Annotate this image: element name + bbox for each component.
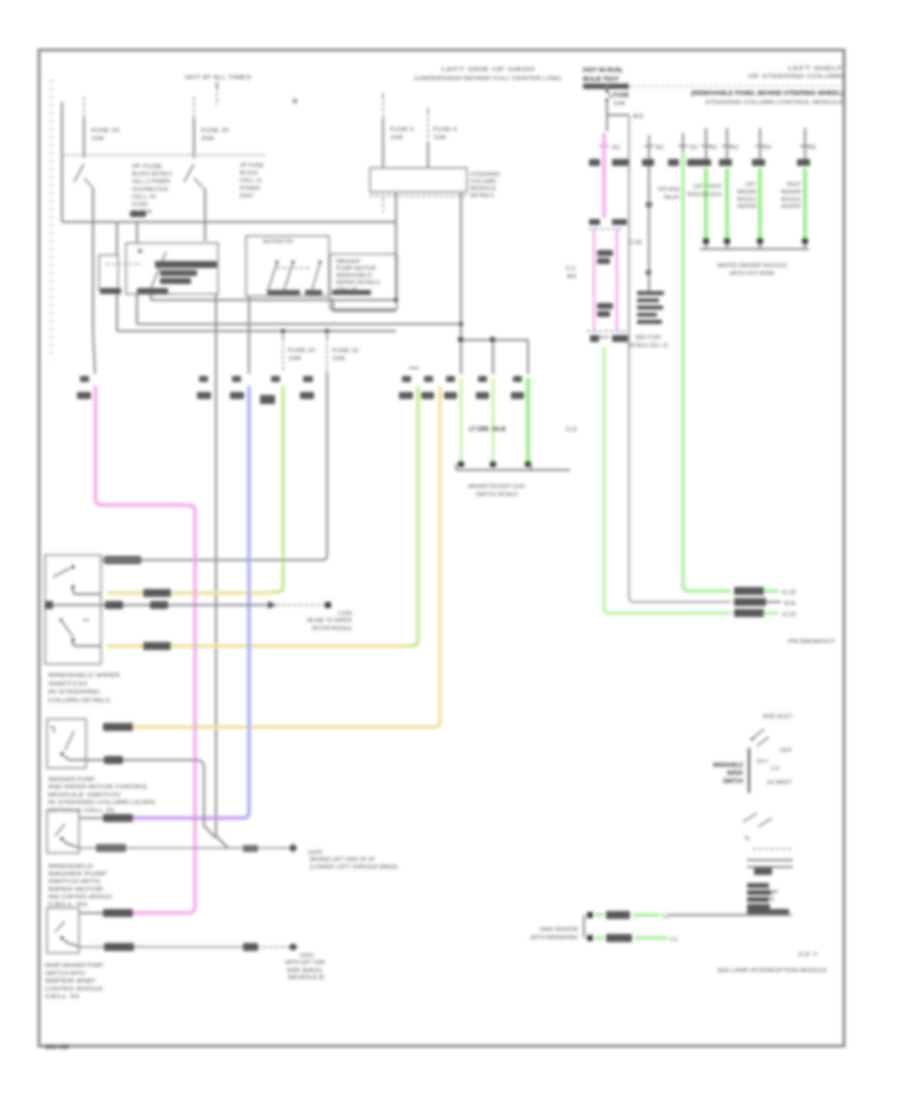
fuse F7 label [613,92,629,107]
relay box B [246,236,329,296]
pin label C2 [628,240,642,246]
svg-text:DLY: DLY [757,759,768,765]
junction [646,202,652,207]
color labels [589,159,629,166]
svg-text:INLINE TO WIPER: INLINE TO WIPER [307,618,352,624]
bus wire L4 [117,330,396,332]
box C text [336,259,380,293]
svg-text:RELAY: RELAY [664,195,680,201]
bracket [456,464,570,470]
wire switch feed [140,372,327,560]
wiper switch arm2 [757,737,769,746]
rain sensor bracket [583,915,585,938]
switch S1 caption [48,673,120,704]
node label LEFT SIDE OF DASH [415,67,562,82]
washer nozzle text 1 [687,184,706,198]
merge diag Va [216,836,228,848]
svg-text:WASHER: WASHER [737,189,757,195]
svg-text:SWITCH WITH: SWITCH WITH [45,971,85,977]
connector arrow [268,601,276,609]
svg-text:HEATER: HEATER [781,204,801,210]
wire fuse F24 output [92,188,94,222]
terminal [490,461,496,467]
svg-text:D4: D4 [763,145,771,151]
switch S1 contact lower [71,638,74,641]
svg-text:WIPER: WIPER [727,770,743,777]
fuse F24 label [91,128,119,142]
wiper mode label [763,714,793,720]
svg-text:BLK: BLK [492,426,507,433]
svg-text:25A: 25A [201,136,214,142]
color labels [668,159,699,166]
svg-text:MTR: MTR [762,897,774,903]
svg-text:BLOCK DETAILS: BLOCK DETAILS [132,172,172,178]
wire GRN long right [604,347,731,613]
fuse F25 element [184,164,203,188]
switch S2 contact [60,752,63,755]
svg-text:PUMP MOTOR: PUMP MOTOR [336,266,376,272]
wire from HOT label [216,82,218,106]
svg-text:C1: C1 [670,937,678,943]
svg-text:DIST: DIST [240,193,255,199]
wire label [143,589,171,597]
svg-text:IN STEERING: IN STEERING [48,690,100,696]
tick [745,836,749,840]
svg-text:SWITCH DETAILS: SWITCH DETAILS [476,492,518,498]
svg-text:MODULE SWITCH: MODULE SWITCH [48,792,120,798]
junction [458,337,463,342]
svg-text:SWITCH: SWITCH [48,681,87,687]
junction [646,270,651,275]
connector text [307,611,352,632]
svg-text:LEFT SIDE OF DASH: LEFT SIDE OF DASH [442,67,535,73]
switch S1 divider wire [45,604,101,606]
wire label [96,844,126,852]
coil dashes [106,263,142,265]
wire GRN pig2 [595,934,678,943]
wire YEL horizontal row1 [107,591,272,594]
svg-text:10A: 10A [613,101,625,107]
svg-text:CELL 11: CELL 11 [240,178,262,184]
left dashed guide line [50,79,52,360]
svg-text:10A: 10A [91,136,104,142]
washer level switch feed [461,340,528,374]
bottom caption [717,968,827,974]
svg-text:D2: D2 [709,145,717,151]
switch S1 arm lower [60,619,74,638]
wire GRN b [491,378,494,461]
svg-text:DETAILS: DETAILS [470,193,494,199]
blob [754,868,772,875]
terminal [525,461,531,467]
svg-text:IN STEERING COLUMN LEVER: IN STEERING COLUMN LEVER [48,800,155,806]
node HOT IN RUN [583,67,629,89]
fuse F5 label [390,127,414,141]
svg-text:LEFT: LEFT [745,182,758,188]
svg-text:(REMOVABLE PANEL BEHIND STEERI: (REMOVABLE PANEL BEHIND STEERING WHEEL) [691,90,843,97]
svg-text:B3: B3 [633,114,643,120]
svg-text:AIR BAG): AIR BAG) [287,968,322,974]
svg-text:WASHER SOLVENT LEVEL: WASHER SOLVENT LEVEL [468,484,526,490]
rain sensor terminal 1 [587,912,593,918]
wire GRN a [459,378,462,461]
pin label [77,376,91,399]
svg-text:SWITCH: SWITCH [723,778,743,785]
ground G201 text [285,953,325,981]
switch box S4 [47,908,79,953]
junction [394,298,398,302]
svg-text:FUSE 23: FUSE 23 [288,348,315,354]
nozzle caption [717,263,787,277]
wire row3 ground [101,604,268,606]
branch wire [607,114,643,120]
fuse F25 label [201,128,229,142]
wire color label [421,392,434,399]
terminal [458,461,464,467]
fuse block top dashed edge [62,154,265,156]
relay box B label [263,239,293,245]
svg-text:CONTROL MODULE: CONTROL MODULE [45,986,103,992]
ground G200 text [308,850,398,871]
page number text [45,1044,69,1051]
wire relay feed [644,135,664,291]
svg-text:15A: 15A [433,135,446,141]
svg-text:LO: LO [771,766,780,772]
svg-text:FUSE 25: FUSE 25 [201,128,229,134]
fuse F23 lead [282,334,284,372]
svg-text:LEFT: LEFT [693,184,706,190]
svg-text:C2 B5: C2 B5 [628,240,642,246]
wire GRN2 stub [701,128,717,166]
wire relay A pin [215,294,217,836]
pin tick [599,145,620,151]
wire YEL/GRN 2 vertical [407,386,418,646]
wire GRN end [764,612,796,618]
wire dashed [276,604,326,606]
svg-text:STEERING COLUMN CONTROL MODULE: STEERING COLUMN CONTROL MODULE [705,100,843,106]
wire coil feed [116,222,118,255]
junction [281,329,285,333]
svg-text:WIPER DETAILS: WIPER DETAILS [336,280,380,286]
terminal [703,238,709,244]
svg-text:MODULE: MODULE [288,975,325,981]
wire GRN1 end [764,590,796,596]
wire BLU vertical [230,296,249,399]
svg-text:FUSE 5: FUSE 5 [390,127,414,133]
switch S4 contact [60,936,63,939]
wire GRN1 text [658,187,681,201]
dash row [753,848,793,850]
switch S2 elbow [64,756,86,760]
svg-text:STEERING: STEERING [470,172,500,178]
svg-text:B4: B4 [567,274,576,280]
pin label [424,376,433,382]
svg-text:34251-GW0: 34251-GW0 [45,1044,69,1051]
svg-text:G: G [784,601,796,607]
svg-text:C2: C2 [782,612,796,618]
dashed separator [631,85,843,87]
svg-text:WINDSHIELD: WINDSHIELD [48,864,93,870]
svg-text:HEATER: HEATER [737,204,757,210]
wire fuse F25 output [204,188,206,241]
svg-text:AND WIPER MOTOR CONTROL: AND WIPER MOTOR CONTROL [48,785,148,791]
svg-text:HOT AT ALL TIMES: HOT AT ALL TIMES [185,75,251,81]
switch S1 contact [71,585,74,588]
wire to pump [681,914,792,916]
bracket [700,244,809,249]
color labels [642,159,654,166]
svg-text:CELL 10: CELL 10 [132,194,156,200]
fuse F22 label [332,348,359,362]
pin label V_a [197,376,211,399]
dark band under coil [100,288,168,294]
wire YEL horizontal row3 [107,725,429,728]
svg-text:WASHER: WASHER [336,259,360,265]
wire GRN c [526,378,530,461]
relay box A label band3 [160,278,191,284]
switch S3 arm [55,824,65,836]
color labels [444,392,524,399]
svg-text:SEE LAMP INTERRUPTION MODULE: SEE LAMP INTERRUPTION MODULE [717,968,827,974]
svg-text:10A: 10A [288,356,301,362]
rain sensor note [788,639,836,645]
wire GRN2 [704,168,708,238]
tick [50,727,54,733]
switch S4 caption [45,963,103,1000]
fuse F23 label [288,348,315,362]
svg-text:A1: A1 [612,145,620,151]
wire down x629 [628,115,630,598]
wire PNK right [602,133,605,218]
wire GRN4 stub [755,128,771,166]
wire YEL horizontal row2 [107,644,407,647]
wire label [103,909,133,917]
relay box A label band1 [155,261,217,268]
relay box A [126,243,218,294]
bus wire fuse block bottom [62,221,396,223]
svg-text:DISTRIBUTION: DISTRIBUTION [132,187,168,193]
switch S1 contact [71,565,74,568]
color label [719,159,732,166]
switch S4 elbow [64,940,79,947]
color label [698,159,711,166]
svg-text:FUSE: FUSE [613,92,629,99]
svg-text:RIGHT: RIGHT [787,182,801,188]
relay box A label band2 [160,270,197,276]
wire BLK ground row [79,847,293,849]
pin label [271,376,280,382]
fuse F6 label [433,127,457,141]
svg-text:D3: D3 [730,145,738,151]
rain sensor terminal 2 [587,935,593,941]
wire label [734,609,764,617]
wire end [766,601,796,607]
washer heater text 2 [781,182,801,210]
wire stub to box4 [79,912,103,914]
svg-text:SWITCH WITH: SWITCH WITH [48,879,100,885]
svg-text:SEE FUSE: SEE FUSE [635,335,661,341]
wire label [143,642,171,650]
relay box A switch arm [151,252,166,288]
svg-text:NOZZLE: NOZZLE [687,192,705,198]
wire YEL vertical [429,386,440,727]
wire to module [668,914,681,916]
color label [752,159,765,166]
svg-text:I/P FUSE: I/P FUSE [132,164,162,170]
washer heater text 1 [737,182,758,210]
svg-text:(WITH LEFT SIDE: (WITH LEFT SIDE [285,960,325,966]
inline connector C100 edges [587,229,626,331]
switch S1 arm [53,568,70,577]
wire GRN5 [803,168,807,238]
svg-text:AND CONTROL MODULE: AND CONTROL MODULE [48,894,112,900]
svg-text:WINDSHIELD WIPER: WINDSHIELD WIPER [48,673,120,679]
fuse F24 lead [83,97,85,158]
switch S1 elbow lower [73,642,101,646]
wire relay output B [460,192,462,340]
svg-text:BEHIND LEFT SIDE OF I/P: BEHIND LEFT SIDE OF I/P [310,857,375,863]
svg-text:OFF: OFF [780,748,793,754]
wire PNK [96,386,196,913]
fuse block text label [132,164,172,216]
bus wire L3 [137,223,461,324]
wire inline labels [469,426,577,433]
connector label above bus [130,211,146,217]
fuse F22 lead [326,334,328,372]
tick mark [137,248,143,254]
wiper labels [757,748,793,786]
terminal [802,238,808,244]
fuse F6 lead [427,108,429,168]
rain sensor text [530,927,578,941]
switch box S3 [47,810,79,853]
svg-text:MULTIFUNCTION: MULTIFUNCTION [263,239,293,245]
relay block text [637,291,664,324]
svg-text:G200: G200 [308,850,322,856]
fuse block left edge [61,102,63,222]
svg-text:NOZZLE: NOZZLE [737,197,757,203]
svg-text:BULB TEST: BULB TEST [583,76,619,83]
svg-text:MODE SELECT: MODE SELECT [763,714,793,720]
svg-text:WINDSHIELD: WINDSHIELD [336,273,372,279]
connector C100 left text [566,266,576,280]
relay box B arm 3 [312,261,322,291]
wire GRN4 [758,168,762,238]
wire coil out [116,290,118,331]
svg-text:C200: C200 [338,611,352,617]
svg-text:PIN BREAKOUT: PIN BREAKOUT [788,639,836,645]
svg-text:G201: G201 [300,953,314,959]
wire GRN5 stub [800,128,816,166]
svg-text:REAR WASHER PUMP: REAR WASHER PUMP [45,963,103,969]
wing text [762,890,778,903]
svg-text:WINDSHIELD: WINDSHIELD [713,762,743,769]
svg-text:(UNDERDASH BEHIND FULL CENTER: (UNDERDASH BEHIND FULL CENTER LINE) [415,76,562,82]
wire label [734,587,764,595]
junction [459,322,463,326]
washer nozzle text 2 [704,184,722,198]
svg-text:WIPER AND: WIPER AND [45,979,95,985]
right header text [748,66,844,80]
svg-text:PUMP: PUMP [762,890,778,896]
wire label [103,814,133,822]
wire GRN1 stub [678,133,698,166]
junction [490,337,495,342]
pin label F22 wire [300,376,314,399]
svg-text:BLOCK: BLOCK [132,210,152,216]
svg-text:B2: B2 [656,145,664,151]
ground G201 [288,943,298,951]
svg-text:15A: 15A [390,135,403,141]
pin tick below [590,335,628,342]
switch S4 arm [55,921,65,932]
svg-text:HI MIST: HI MIST [767,780,793,786]
terminal [325,602,331,608]
svg-text:MOTOR MODULE: MOTOR MODULE [312,626,352,632]
wire F7 down [606,102,608,131]
wire PPL horizontal [133,816,243,819]
row line2 [747,866,793,868]
wire box1 top pin [101,559,140,561]
svg-text:FUSE: FUSE [132,202,148,208]
svg-text:LEFT SHELF: LEFT SHELF [788,66,844,72]
pin label [402,368,419,382]
bottom caption C2 [798,952,818,958]
wire YEL/GRN vertical [272,386,283,592]
svg-text:CELL 91: CELL 91 [45,994,80,1000]
wire label [103,723,133,731]
svg-text:C2: C2 [566,427,577,433]
fuse F5 lead [382,93,384,168]
wiper switch S5 caption [713,762,743,785]
svg-text:COLUMN DETAILS: COLUMN DETAILS [48,698,110,704]
switch S3 elbow [64,841,79,848]
bus wire L1 [151,294,396,300]
pin labels [446,376,522,382]
terminal blob [45,601,53,609]
svg-text:LT GRN: LT GRN [469,426,489,433]
caption band [747,909,789,916]
junction [325,329,329,333]
svg-text:C2 =: C2 = [798,952,818,958]
svg-text:D5: D5 [808,145,816,151]
terminal [757,238,763,244]
wire GRN1 long [683,152,731,591]
wire GRN3 [725,168,729,238]
pin labels [589,219,627,225]
relay block caption [628,335,668,349]
terminal [724,238,730,244]
svg-text:BLOCK: BLOCK [240,171,258,177]
svg-text:WASHER PUMP: WASHER PUMP [48,872,107,878]
box C outline [330,254,397,309]
color label [797,159,810,166]
wire label [243,845,258,852]
switch S2 caption [48,777,155,814]
fuse F24 element [74,164,93,188]
svg-text:OF STEERING COLUMN: OF STEERING COLUMN [748,74,843,80]
svg-text:(WITH RAINSENSE): (WITH RAINSENSE) [530,935,578,941]
wire GRN3 stub [722,128,738,166]
switch S3 caption [48,864,112,908]
tick [83,619,89,621]
switch S1 elbow [73,589,101,594]
washer pump block [747,883,771,909]
svg-text:D1: D1 [690,145,698,151]
svg-text:CELL 91: CELL 91 [336,287,358,293]
svg-text:FUSE 6: FUSE 6 [433,127,457,133]
wire PNK feed stub [93,222,95,374]
